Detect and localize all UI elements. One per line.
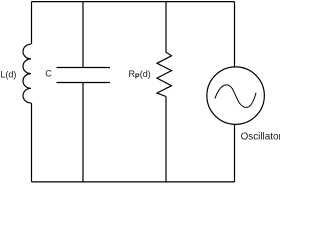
svg-text:L(d): L(d) — [0, 69, 16, 79]
svg-text:Oscillator: Oscillator — [241, 131, 280, 142]
svg-text:(d): (d) — [140, 69, 151, 79]
svg-text:C: C — [45, 69, 52, 79]
